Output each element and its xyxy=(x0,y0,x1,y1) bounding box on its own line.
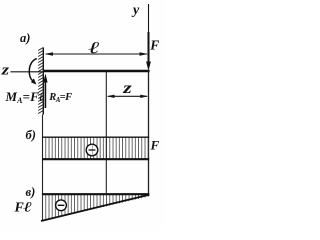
wall line / left construction line xyxy=(42,48,44,115)
svg-text:y: y xyxy=(131,3,140,18)
beam xyxy=(44,70,150,73)
z axis xyxy=(11,71,44,73)
moment diagram sloped edge xyxy=(41,195,149,221)
svg-text:ℓ: ℓ xyxy=(23,199,32,215)
minus sign circle in shear diagram xyxy=(86,144,98,156)
wall hatching xyxy=(38,48,43,114)
reaction R_A arrow xyxy=(44,81,46,108)
shear diagram top edge xyxy=(42,136,149,138)
shear diagram hatched area xyxy=(43,138,149,159)
force F arrow xyxy=(148,32,150,63)
dimension z line xyxy=(108,95,147,97)
svg-text:z: z xyxy=(1,61,10,78)
shear diagram bottom edge xyxy=(42,158,149,160)
svg-text:MA=Fℓ: MA=Fℓ xyxy=(5,89,45,105)
svg-text:z: z xyxy=(122,80,132,98)
moment diagram baseline xyxy=(42,193,149,195)
minus sign circle in moment diagram xyxy=(56,200,67,211)
svg-text:F: F xyxy=(149,37,159,52)
svg-text:а): а) xyxy=(20,31,30,45)
moment M_A curved arrow xyxy=(29,59,37,81)
svg-text:F: F xyxy=(150,137,160,152)
y axis xyxy=(148,4,150,34)
svg-text:RA=F: RA=F xyxy=(48,92,72,104)
svg-text:б): б) xyxy=(26,128,36,142)
moment diagram hatched area xyxy=(42,194,149,222)
right construction line xyxy=(148,71,150,196)
svg-text:ℓ: ℓ xyxy=(88,38,100,56)
section line at distance z xyxy=(105,72,107,193)
svg-text:в): в) xyxy=(26,185,36,199)
dimension l line xyxy=(46,53,147,55)
